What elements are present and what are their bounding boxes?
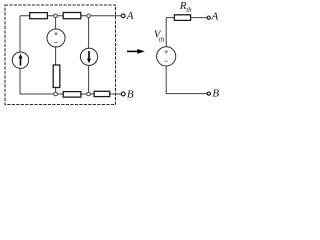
svg-text:th: th xyxy=(186,6,192,14)
svg-text:th: th xyxy=(159,36,165,44)
svg-text:A: A xyxy=(126,10,134,22)
svg-text:A: A xyxy=(211,11,219,23)
svg-text:B: B xyxy=(212,88,219,100)
svg-text:B: B xyxy=(127,89,134,101)
